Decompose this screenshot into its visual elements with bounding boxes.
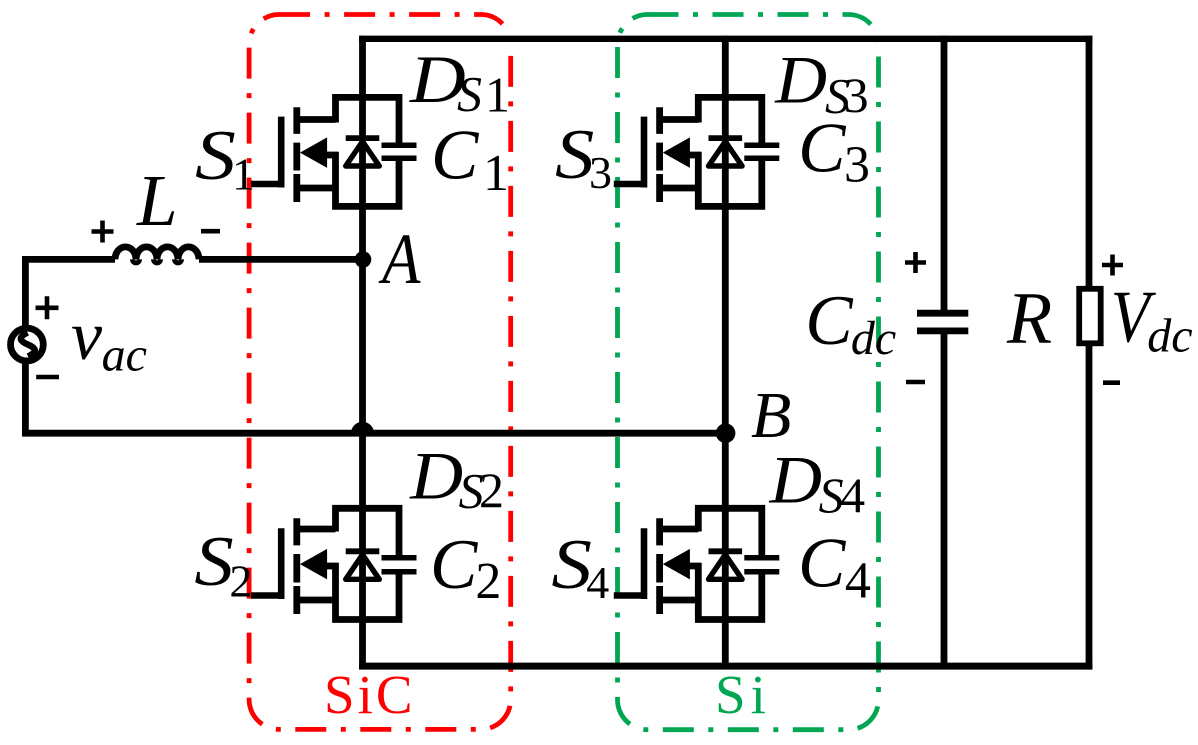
- svg-text:1: 1: [232, 149, 255, 200]
- svg-text:3: 3: [844, 67, 869, 123]
- svg-text:R: R: [1006, 278, 1052, 360]
- svg-text:D: D: [774, 42, 827, 118]
- svg-text:C: C: [798, 110, 847, 188]
- svg-text:v: v: [71, 298, 103, 375]
- svg-text:S: S: [194, 523, 233, 601]
- svg-text:D: D: [769, 442, 822, 518]
- svg-text:C: C: [798, 525, 847, 603]
- svg-text:2: 2: [229, 555, 252, 606]
- svg-text:1: 1: [483, 145, 509, 202]
- svg-text:S: S: [457, 66, 482, 122]
- svg-text:S: S: [195, 117, 236, 195]
- svg-text:C: C: [430, 526, 479, 604]
- svg-text:4: 4: [845, 552, 871, 609]
- svg-text:4: 4: [586, 557, 609, 608]
- svg-text:ac: ac: [102, 329, 147, 382]
- svg-text:4: 4: [840, 467, 865, 523]
- svg-text:dc: dc: [851, 312, 896, 365]
- svg-text:C: C: [431, 117, 480, 195]
- svg-text:C: C: [805, 282, 854, 360]
- svg-text:3: 3: [589, 147, 612, 198]
- svg-text:L: L: [136, 160, 178, 241]
- svg-text:dc: dc: [1147, 309, 1192, 362]
- svg-text:D: D: [409, 438, 463, 514]
- svg-text:3: 3: [844, 137, 870, 194]
- svg-text:SiC: SiC: [324, 664, 416, 725]
- svg-text:1: 1: [485, 67, 510, 123]
- svg-text:2: 2: [475, 553, 501, 610]
- svg-text:2: 2: [479, 462, 504, 518]
- svg-text:Si: Si: [715, 664, 771, 725]
- svg-text:A: A: [379, 219, 422, 299]
